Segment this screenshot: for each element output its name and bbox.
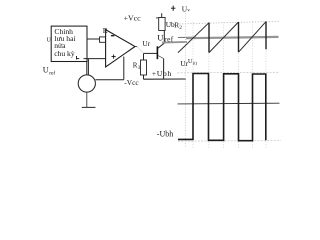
square wave Ur(t): [178, 74, 266, 141]
node Uref label: [43, 66, 56, 77]
source circle G1: [78, 75, 95, 92]
vertical guide x=208.8: [208, 22, 210, 149]
sawtooth drop 3: [265, 22, 267, 50]
vertical guide x=238.5: [238, 22, 240, 149]
-Ubh dashed bottom level: [178, 140, 281, 143]
op-amp U2: [106, 30, 135, 67]
sawtooth drop 1: [208, 23, 210, 53]
resistor R2: [156, 13, 165, 30]
axis vertical dotted: [184, 13, 186, 148]
svg-text:ref: ref: [49, 69, 55, 76]
Ubh dotted top level line: [179, 21, 278, 24]
transistor collector: [158, 31, 164, 49]
transistor emitter: [158, 55, 164, 79]
sawtooth drop 2: [238, 22, 240, 52]
labels Ur U(t): [180, 58, 197, 68]
ground: [82, 92, 96, 107]
time axis (square plot): [178, 102, 280, 105]
label Uref (plot): [157, 32, 196, 43]
+Ubh wire: [144, 78, 187, 80]
svg-text:U: U: [157, 32, 164, 42]
axis Uv label: [171, 4, 190, 13]
-Vcc supply lead: [123, 57, 125, 80]
svg-text:v: v: [187, 7, 190, 13]
transistor Q1 bar: [156, 46, 158, 59]
wire R3 bottom: [143, 75, 145, 79]
vertical guide x=266: [265, 22, 267, 149]
vertical guide x=193: [192, 22, 194, 149]
vertical guide x=252.5: [252, 22, 254, 149]
gray underline segment: [162, 41, 187, 44]
label R2: [174, 20, 182, 31]
sawtooth ramp 2: [209, 22, 239, 53]
label R3: [133, 62, 141, 72]
svg-text:(t): (t): [193, 61, 198, 66]
wire down to R3: [143, 53, 145, 60]
wire inverting input: [87, 38, 100, 40]
svg-text:-Ubh: -Ubh: [157, 130, 173, 139]
sawtooth ramp 1: [178, 23, 209, 53]
svg-text:+Ubh: +Ubh: [152, 69, 172, 78]
op-amp output wire: [135, 47, 157, 54]
wire noninverting input: [77, 56, 106, 75]
wire box bottom to circle: [86, 62, 88, 76]
svg-text:-Vcc: -Vcc: [124, 78, 139, 87]
svg-text:U: U: [43, 66, 49, 75]
sawtooth ramp 3: [239, 22, 267, 53]
wire circle to -Vcc lead: [95, 79, 123, 81]
svg-text:2: 2: [179, 26, 182, 31]
svg-text:Ur: Ur: [142, 39, 150, 48]
vertical guide x=223.6: [223, 22, 225, 149]
+Ubh dashed top level (square plot): [177, 71, 279, 74]
rectifier block U1 (Chinh luu hai nua chu ky): [51, 26, 87, 61]
svg-text:+Vcc: +Vcc: [124, 14, 141, 23]
resistor R (input): [100, 37, 106, 42]
svg-text:chu kỳ: chu kỳ: [54, 49, 75, 58]
Uref gray level line: [186, 37, 279, 38]
resistor R3: [141, 60, 147, 75]
